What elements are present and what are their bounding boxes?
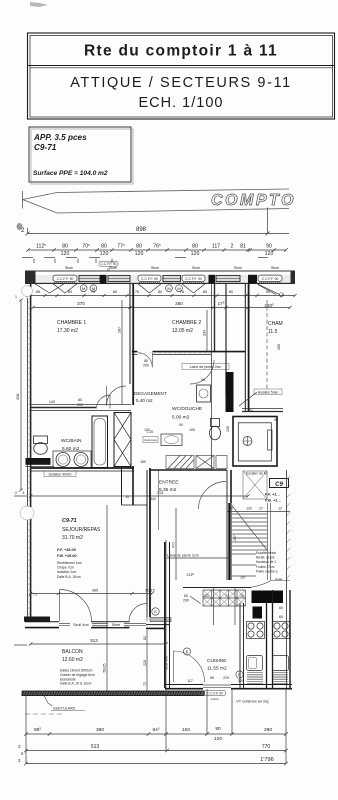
svg-text:428: 428 [15,393,20,400]
swing end circle [279,293,283,297]
dim 513 sejour width [29,642,168,645]
svg-text:450: 450 [277,344,281,350]
svg-text:ECH. 1/100: ECH. 1/100 [139,95,224,111]
corridor north walls [242,409,283,412]
wc2 toilet [210,419,221,440]
svg-text:C.C.F.F. 90: C.C.F.F. 90 [101,262,117,266]
elevator shaft [233,417,277,467]
svg-text:370: 370 [77,301,85,306]
svg-text:220: 220 [143,660,147,666]
svg-text:15: 15 [125,495,129,499]
sejour east wall [147,468,150,617]
svg-text:513: 513 [91,744,100,750]
svg-text:31.70 m2: 31.70 m2 [62,535,83,541]
kitchen wall right vertical [267,590,273,689]
svg-text:81: 81 [240,244,246,250]
svg-text:120: 120 [238,679,244,683]
palier courbe landing curve [252,581,290,588]
svg-text:267: 267 [233,535,237,541]
laine de pierre label chambre2 [182,364,229,370]
svg-text:Revêt. as pie: Revêt. as pie [256,556,275,560]
room label cuisine [207,658,227,672]
svg-text:117: 117 [212,244,220,250]
E circle sejour [152,608,159,615]
facade sub-dimension line [26,294,296,297]
dim line above sejour wall [29,592,154,595]
kitchen top dims [254,606,283,619]
svg-text:F.B. +18.00: F.B. +18.00 [57,554,77,558]
wall chambre1/chambre2 [130,284,133,405]
svg-text:342: 342 [150,497,156,501]
dimension labels row [36,243,273,257]
landing X brace [243,471,267,499]
entree door arc [199,482,227,510]
svg-text:80: 80 [68,290,72,294]
svg-text:267: 267 [240,576,246,580]
wc/bain door arc [97,395,111,409]
svg-text:M: M [82,286,85,291]
svg-text:120: 120 [100,251,109,257]
elevator door mark [268,430,273,450]
E circle cuisine nw [183,648,190,655]
facade inner line [25,282,295,284]
wc/bain north wall [31,408,131,411]
E circle cuisine mid [236,671,243,678]
svg-text:5.00 m2: 5.00 m2 [172,415,190,421]
chambre1 interior dim [121,300,123,405]
svg-text:2: 2 [18,744,21,749]
svg-text:120: 120 [265,251,274,257]
svg-text:1'796: 1'796 [260,757,274,763]
svg-text:E: E [154,610,157,614]
labels on sejour wall [70,622,92,627]
svg-text:C9: C9 [275,482,283,488]
svg-text:90: 90 [201,378,205,382]
entree north hatched wall [166,456,227,469]
left exterior wall [28,284,31,617]
dims around elevator [226,409,278,432]
svg-text:2: 2 [18,758,21,763]
chambre2 vertical dim [206,310,208,352]
svg-text:Store: Store [151,266,159,270]
entree east wall [227,470,231,580]
svg-text:90: 90 [215,726,221,732]
svg-text:Isolation 40mm: Isolation 40mm [49,472,72,476]
svg-text:360: 360 [175,301,183,306]
appliance hatched left [247,673,263,684]
svg-text:80: 80 [158,290,162,294]
svg-text:Hauteurs de 1: Hauteurs de 1 [256,560,276,564]
svg-text:Isolat: Isolat [275,577,282,581]
stair landing lines [232,554,257,576]
entree vertical dim [175,508,177,580]
svg-text:96: 96 [210,676,214,680]
svg-text:5.40 m2: 5.40 m2 [136,398,153,403]
svg-text:1/4cm: 1/4cm [211,697,220,701]
svg-text:ENTREE: ENTREE [159,480,178,486]
door arc chambre2 [138,353,153,368]
svg-text:SEJOUR/REPAS: SEJOUR/REPAS [62,527,101,533]
svg-text:12.60 m2: 12.60 m2 [62,657,83,663]
svg-text:117: 117 [187,679,193,683]
svg-text:60: 60 [279,615,283,619]
svg-text:BALCON: BALCON [62,649,83,655]
facade band base [25,275,295,282]
wc/douche door arc [190,360,214,384]
labels near shaft [125,460,146,499]
svg-text:F.F. +1…: F.F. +1… [265,493,280,497]
cuisine south wall [165,685,292,689]
svg-text:← VT cuisines en faç: ← VT cuisines en faç [231,699,269,704]
short partition stubs [214,588,236,625]
duct shaft braced [114,413,131,467]
svg-text:70: 70 [91,290,95,294]
svg-text:Surface PPE = 104.0 m2: Surface PPE = 104.0 m2 [33,170,108,177]
facade axis dashes [22,258,268,264]
bathtub [92,416,108,468]
svg-text:2: 2 [231,244,234,250]
scan artifact top-left [30,2,48,7]
door openings white [59,621,91,629]
svg-text:4: 4 [21,751,24,756]
lavabo 2 [74,453,88,467]
room label chambre 3 cut [268,321,283,335]
svg-text:E: E [186,650,189,654]
svg-text:Store: Store [112,623,120,627]
facade outer line [25,270,295,272]
svg-text:229: 229 [223,676,229,680]
bottom dim row A [24,732,288,736]
wall wc-douche right thin [212,284,215,470]
small dims wc/douche [179,378,205,427]
svg-text:76: 76 [180,290,184,294]
balcon outer hatched strip [22,691,204,696]
wc2 dim row [144,428,195,432]
svg-text:90: 90 [274,418,278,422]
svg-text:770: 770 [262,744,271,750]
svg-text:C.C.F.F. 90: C.C.F.F. 90 [57,277,74,281]
sejour south wall [25,622,146,628]
svg-text:60: 60 [184,594,188,598]
svg-text:Dalles ciment 3000cm: Dalles ciment 3000cm [60,669,93,673]
svg-text:12: 12 [278,507,282,511]
road banner outline [23,189,289,213]
svg-text:200: 200 [143,364,149,368]
ccff label cuisine [205,691,226,696]
store labels above facade [65,266,279,270]
svg-text:Etanchéité: Etanchéité [60,677,76,681]
svg-text:17.30 m2: 17.30 m2 [57,328,78,334]
svg-text:M: M [167,286,170,291]
svg-text:Dalle B.A. 20cm: Dalle B.A. 20cm [57,575,81,579]
svg-text:Store: Store [234,266,242,270]
svg-text:120: 120 [214,736,222,742]
elevator symbol [243,437,252,446]
wc2 lavabo counter [161,434,182,446]
hob left [247,622,265,639]
sink right [273,656,289,671]
svg-text:CHAMBRE 1: CHAMBRE 1 [57,320,86,326]
svg-text:C9-71: C9-71 [34,143,57,152]
cuisine door arc [174,651,205,682]
svg-text:120: 120 [144,428,150,432]
svg-text:150: 150 [182,727,190,733]
svg-text:360: 360 [96,727,104,733]
svg-text:Dalle B.A. 20 & 16cm: Dalle B.A. 20 & 16cm [60,682,92,686]
svg-text:COMPTO: COMPTO [211,192,296,209]
left wall joint circle top [22,286,33,297]
corner pier top-left [25,271,36,284]
svg-text:11.55 m2: 11.55 m2 [207,666,227,672]
isolation 5mm label [254,389,282,394]
svg-text:Seuil 4cm: Seuil 4cm [73,623,88,627]
svg-text:Chape 7cm: Chape 7cm [57,566,74,570]
wall chambre2/chambre3 [245,284,248,412]
chambre3 swing diagonal [258,285,277,295]
left wall joint circle bottom [20,506,34,520]
chambre2 south wall hatch [134,352,212,354]
svg-text:287: 287 [118,327,122,333]
svg-text:15: 15 [240,594,244,598]
svg-text:Isolation 5mm: Isolation 5mm [258,391,279,395]
levels sejour [57,548,77,558]
svg-text:477: 477 [172,542,176,548]
svg-text:334: 334 [203,330,207,336]
svg-text:90: 90 [254,606,258,610]
balcon build-up block [60,669,95,686]
lower leader verticals [26,540,286,764]
svg-text:Store: Store [192,266,200,270]
svg-text:ATTIQUE / SECTEURS 9-11: ATTIQUE / SECTEURS 9-11 [70,75,292,91]
cuisine west rotated dims [146,630,148,692]
svg-text:290: 290 [264,727,272,733]
svg-text:C.C.F.F. 90: C.C.F.F. 90 [262,277,279,281]
svg-text:70: 70 [135,290,139,294]
kitchen black counter bar [252,591,284,604]
svg-text:Laine de pierre 2cm: Laine de pierre 2cm [167,554,199,558]
svg-text:Colonnes: Colonnes [144,438,157,442]
M symbols circled [80,285,182,292]
svg-text:WC/BAIN: WC/BAIN [61,438,82,444]
dashes under balcon [25,713,62,715]
black duct [226,372,234,412]
svg-text:80: 80 [136,244,142,250]
dimension row segments [26,248,288,252]
svg-text:71: 71 [33,593,37,597]
svg-text:140: 140 [49,400,55,404]
svg-text:Store: Store [65,266,73,270]
dark window frames between [79,275,240,281]
svg-text:CHAM: CHAM [268,321,283,327]
sill lines in openings [59,624,146,626]
svg-text:C.C.F.F. 90: C.C.F.F. 90 [207,692,223,696]
svg-text:85: 85 [36,290,40,294]
cuisine window opening [203,683,231,690]
room label degagement [134,391,167,403]
svg-text:Revêtement 1cm: Revêtement 1cm [57,561,82,565]
svg-text:60: 60 [254,615,258,619]
svg-text:Laine de pierre 2cm: Laine de pierre 2cm [190,365,222,369]
svg-text:WC/DOUCHE: WC/DOUCHE [172,406,202,412]
svg-text:12.05 m2: 12.05 m2 [172,328,193,334]
cuisine west corner wall [146,542,170,688]
svg-text:1: 1 [15,295,17,299]
svg-text:60: 60 [279,606,283,610]
svg-text:Store: Store [271,266,279,270]
room label balcon [62,649,83,663]
room label wc/douche [172,406,202,421]
svg-text:Palier courbé a: Palier courbé a [256,569,278,573]
svg-text:200: 200 [183,599,189,603]
wall duct x226 [225,284,227,395]
stair upper flight treads [232,503,271,580]
svg-text:CUISINE: CUISINE [207,658,226,664]
door leaf+arc right [146,604,148,622]
svg-text:11.5: 11.5 [268,329,278,335]
colonnes label box [143,437,158,443]
shaft walls continuing down [122,466,148,505]
svg-text:5.35 m2: 5.35 m2 [159,487,177,493]
title block frame [28,33,335,119]
dim 715 [29,494,250,497]
svg-text:90: 90 [179,423,183,427]
svg-text:130: 130 [247,409,253,413]
svg-text:513: 513 [90,638,98,643]
lavabo 1 [56,453,70,467]
svg-text:Foulée 27cm: Foulée 27cm [256,565,275,569]
balcon depth dim [106,505,108,691]
svg-text:C.C.F.F. 90: C.C.F.F. 90 [141,277,158,281]
interior dimension line 370 360 [31,306,291,309]
guetulard leader label [44,696,52,707]
svg-text:120: 120 [135,251,144,257]
tiles floor entree [203,590,246,606]
escalier text block [256,551,278,573]
stair dim row [227,511,290,513]
threshold black block sejour nw [26,458,51,465]
ccff label above facade [99,261,118,271]
vanity counter [53,451,91,468]
wc toilet [34,436,48,454]
apartment info box [29,127,133,184]
door opening chambre2 [138,350,153,355]
bottom dim row C [24,762,288,766]
svg-text:80: 80 [203,290,207,294]
svg-text:80: 80 [192,244,198,250]
svg-text:CHAMBRE 2: CHAMBRE 2 [172,320,201,326]
scan artifact blob [17,223,23,230]
svg-text:4: 4 [23,491,25,495]
svg-text:180: 180 [140,460,146,464]
isolation leader [239,392,257,406]
svg-text:120: 120 [61,251,70,257]
svg-text:APP. 3.5 pces: APP. 3.5 pces [33,133,87,142]
svg-text:F.F. +18.00: F.F. +18.00 [57,548,77,552]
left vertical dimension line [14,299,27,646]
chambre3 isolation dashed [266,300,268,390]
svg-text:80: 80 [101,244,107,250]
chambre2 south wall [132,352,245,355]
douche tray [197,385,211,402]
hall south wall [183,587,252,589]
svg-text:GUETULARD: GUETULARD [53,707,76,711]
svg-text:C9-71: C9-71 [62,518,77,524]
svg-text:130: 130 [226,426,230,432]
svg-text:27: 27 [259,507,263,511]
kitchen wall mid vertical [240,603,244,689]
door swing diagonal hall [190,596,201,604]
svg-text:72: 72 [143,682,147,686]
hatched seuil strip right of sejour doors [150,618,171,622]
window swing triangles [35,284,280,295]
sink left [247,656,263,671]
svg-text:898: 898 [136,227,147,233]
svg-text:80: 80 [78,398,82,402]
isolation 40mm label [44,471,76,476]
appliance hatched right [273,673,288,684]
window ccff boxes [53,275,282,283]
sejour north wall [31,468,134,471]
svg-text:2: 2 [15,491,17,495]
kitchen black block 2 [253,607,263,619]
east corridor wall [286,470,288,689]
stair west wall [228,503,230,580]
wc/douche south wall [150,469,227,471]
svg-text:C.C.F.F. 90: C.C.F.F. 90 [185,277,202,281]
room label chambre 2 [172,320,201,334]
svg-text:102: 102 [203,594,209,598]
black posts [100,275,257,284]
svg-text:81: 81 [143,636,147,640]
svg-text:Escalier béton: Escalier béton [256,551,276,555]
svg-text:Gravier de réglage 6cm: Gravier de réglage 6cm [60,673,95,677]
svg-text:90: 90 [266,244,272,250]
svg-text:DEGAGEMENT: DEGAGEMENT [134,391,167,396]
sw corner threshold [24,617,50,622]
room label entree [159,480,178,494]
svg-text:120: 120 [246,507,252,511]
svg-text:80: 80 [113,290,117,294]
svg-text:365: 365 [92,589,98,593]
hob right [273,622,290,639]
svg-text:Rte du comptoir 1 à 11: Rte du comptoir 1 à 11 [84,43,278,60]
svg-text:80: 80 [62,244,68,250]
door leaf+arc left [59,590,61,622]
cuisine inner dims [187,676,229,683]
svg-text:80: 80 [144,359,148,363]
floor build-up block [57,561,82,579]
dim labels near kitchen top [183,594,244,603]
dimension line 898 [26,208,290,236]
left 2 markers [18,744,24,763]
degagement door arc [107,386,127,406]
facade right end cap [291,271,296,284]
svg-text:77: 77 [225,594,229,598]
svg-text:105: 105 [189,428,195,432]
left wall hatch [28,300,31,616]
svg-text:P.B. +1…: P.B. +1… [265,499,281,503]
svg-text:Store: Store [109,266,117,270]
svg-text:50/25: 50/25 [103,664,107,673]
room label chambre 1 [57,320,86,334]
room label wc/bain [61,438,82,452]
svg-text:120: 120 [191,251,200,257]
svg-text:Isolation 2cm: Isolation 2cm [57,570,77,574]
bottom dim row B [24,749,288,753]
svg-text:80: 80 [229,290,233,294]
